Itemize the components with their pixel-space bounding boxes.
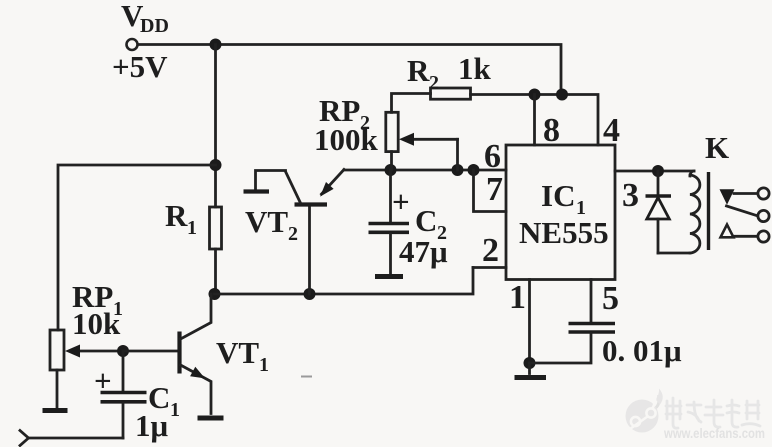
relay contact arm — [727, 206, 757, 216]
label RP1 — [72, 279, 123, 320]
wire pin 3 — [615, 170, 694, 173]
svg-text:VT: VT — [245, 204, 288, 239]
svg-text:4: 4 — [603, 112, 620, 149]
node pin3 / diode / coil — [652, 165, 664, 177]
capacitor C1 — [101, 351, 147, 438]
potentiometer RP2 — [386, 94, 458, 171]
label 0.01u — [602, 333, 682, 368]
label C1 — [148, 380, 180, 421]
wire pin 8 — [533, 95, 536, 146]
svg-text:2: 2 — [288, 223, 298, 245]
contact terminal bottom — [758, 231, 769, 242]
svg-text:1: 1 — [509, 279, 526, 316]
svg-text:www.elecfans.com: www.elecfans.com — [663, 426, 765, 441]
capacitor 0.01u — [530, 280, 616, 364]
svg-text:47μ: 47μ — [399, 234, 448, 269]
relay contact NO — [721, 225, 758, 238]
wire to VT1 base — [123, 350, 178, 353]
wire left branch to RP1 — [58, 165, 216, 330]
label R2 — [407, 53, 439, 94]
scan speckle — [301, 376, 312, 378]
svg-text:100k: 100k — [314, 122, 379, 157]
relay coil K — [690, 171, 709, 253]
svg-text:K: K — [705, 130, 729, 165]
svg-text:IC: IC — [541, 178, 575, 213]
node pin1 / 0.01u — [524, 357, 536, 369]
transistor VT1 — [180, 294, 212, 414]
svg-text:VT: VT — [216, 335, 259, 370]
svg-text:R: R — [407, 53, 430, 88]
label 47u — [399, 234, 448, 269]
wire trigger net (6,7) — [344, 169, 506, 172]
svg-text:6: 6 — [484, 138, 501, 175]
wire touch terminal — [20, 431, 123, 446]
pin 5 — [602, 280, 619, 317]
node R2 / pin8 — [529, 89, 541, 101]
label VT2 — [245, 204, 298, 245]
label VDD — [121, 0, 169, 37]
transistor VT2 — [244, 170, 345, 295]
label 100k — [314, 122, 379, 157]
svg-text:2: 2 — [482, 232, 499, 269]
node C2 / RP2 bottom — [385, 164, 397, 176]
relay contact NC — [720, 189, 758, 205]
svg-text:+: + — [392, 184, 410, 219]
wire pin 1 — [528, 280, 531, 364]
label VT1 — [216, 335, 269, 376]
label RP2 — [319, 93, 370, 134]
wire R1 bottom — [214, 249, 217, 294]
node top rail / VDD column junction — [210, 39, 222, 51]
pin 8 — [543, 112, 560, 149]
label 1k — [458, 51, 492, 86]
watermark text — [666, 398, 760, 428]
ground C2 — [375, 274, 403, 279]
ground RP1 — [43, 408, 68, 413]
wire RP1 bottom — [56, 370, 59, 407]
svg-text:2: 2 — [429, 72, 439, 94]
label C2 — [415, 203, 447, 244]
pin 4 — [603, 112, 620, 149]
label 1u — [135, 408, 169, 443]
node VDD column / left branch — [210, 159, 222, 171]
resistor R2 — [431, 88, 599, 145]
svg-text:10k: 10k — [72, 306, 121, 341]
node rail / VT2 base — [304, 288, 316, 300]
contact terminal top — [758, 188, 769, 199]
resistor R1 — [210, 207, 222, 249]
svg-text:+5V: +5V — [112, 49, 168, 84]
svg-text:0. 01μ: 0. 01μ — [602, 333, 682, 368]
op-amp/timer IC1 NE555 — [506, 145, 615, 280]
pin 7 — [486, 171, 503, 208]
potentiometer RP1 — [50, 330, 123, 370]
label R1 — [165, 198, 197, 239]
svg-text:+: + — [94, 363, 112, 398]
node pin7 branch — [468, 164, 480, 176]
node R2 / top rail riser — [556, 89, 568, 101]
watermark logo — [626, 389, 663, 433]
ground pin1 — [515, 375, 547, 380]
svg-text:8: 8 — [543, 112, 560, 149]
pin 3 — [622, 177, 639, 214]
wire pin 7 branch — [474, 170, 507, 212]
svg-text:3: 3 — [622, 177, 639, 214]
ground VT1 — [198, 416, 224, 421]
label +5V — [112, 49, 168, 84]
label 10k — [72, 306, 121, 341]
svg-text:R: R — [165, 198, 188, 233]
pin 6 — [484, 138, 501, 175]
svg-text:DD: DD — [140, 15, 169, 37]
svg-text:7: 7 — [486, 171, 503, 208]
node R1 / rail — [209, 288, 221, 300]
node RP1 wiper / C1 / VT1 base — [117, 345, 129, 357]
label K — [705, 130, 729, 165]
svg-text:5: 5 — [602, 280, 619, 317]
svg-text:1μ: 1μ — [135, 408, 169, 443]
svg-text:1: 1 — [170, 399, 180, 421]
wire pin1 to ground — [528, 363, 531, 374]
pin 2 — [482, 232, 499, 269]
svg-text:1: 1 — [259, 354, 269, 376]
capacitor C2 — [369, 170, 410, 274]
diode VD — [646, 171, 691, 253]
svg-text:C: C — [415, 203, 437, 238]
wire top rail — [138, 45, 561, 95]
contact terminal middle — [758, 210, 769, 221]
svg-text:1: 1 — [187, 217, 197, 239]
terminal VDD — [127, 39, 138, 50]
pin 1 — [509, 279, 526, 316]
svg-text:NE555: NE555 — [519, 215, 609, 250]
label + of C2 — [392, 184, 410, 219]
wire VDD column — [214, 45, 217, 208]
label + of C1 — [94, 363, 112, 398]
wire bottom rail to pin2 — [215, 268, 474, 295]
wire pin 2 stub — [473, 266, 506, 269]
svg-text:1k: 1k — [458, 51, 492, 86]
node wiper junction — [452, 164, 464, 176]
